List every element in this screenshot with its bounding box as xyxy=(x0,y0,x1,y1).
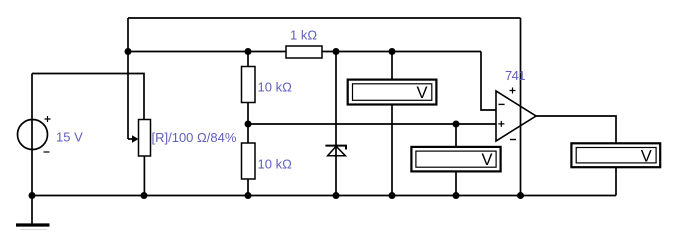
wire bus2 left segment xyxy=(128,51,286,53)
svg-text:[R]/100 Ω/84%: [R]/100 Ω/84% xyxy=(152,130,237,145)
wire R2 top lead xyxy=(247,52,249,67)
wire V2 top lead xyxy=(455,124,457,147)
wire top rail (V+ supply) xyxy=(128,17,521,19)
op-amp V- minus mark xyxy=(510,139,516,141)
junction node mid/V2 xyxy=(453,121,460,128)
voltmeter V2 outer box xyxy=(411,147,500,172)
wire V2 bottom lead xyxy=(455,172,457,196)
source V1 15V circle xyxy=(18,120,48,150)
wire zener branch vertical xyxy=(335,52,337,196)
svg-text:741: 741 xyxy=(505,68,525,83)
wire pot wiper arm xyxy=(128,138,134,140)
wire ground stem xyxy=(31,196,33,224)
junction node gnd/zener xyxy=(333,192,340,199)
wire R3 bottom lead xyxy=(247,179,249,196)
wire source vertical xyxy=(31,74,33,196)
junction node bus2/V1 xyxy=(389,48,396,55)
svg-text:V: V xyxy=(417,84,428,102)
zener diode D1 cathode bar xyxy=(325,146,346,150)
wire source top to pot top xyxy=(32,74,144,120)
op-amp non-inverting plus mark xyxy=(498,121,504,127)
svg-text:1 kΩ: 1 kΩ xyxy=(290,28,317,43)
ground symbol shadow xyxy=(20,229,47,231)
source minus sign xyxy=(44,151,50,153)
junction node bus2/zener xyxy=(333,48,340,55)
wire op-amp output to V3 top xyxy=(536,116,616,143)
resistor R1 1k body xyxy=(286,46,322,58)
wire bus2 right segment xyxy=(322,51,481,53)
svg-text:10 kΩ: 10 kΩ xyxy=(258,157,293,172)
voltmeter V2 inner box xyxy=(416,151,496,167)
pot wiper arrowhead xyxy=(132,135,139,142)
junction node gnd/V2 xyxy=(453,192,460,199)
junction node gnd/R3 xyxy=(245,192,252,199)
wire V1 top lead xyxy=(391,52,393,81)
svg-text:15 V: 15 V xyxy=(56,130,83,145)
wire non-inverting rail xyxy=(248,123,496,125)
voltmeter V1 outer box xyxy=(348,80,437,105)
potentiometer R body xyxy=(139,120,151,157)
zener diode D1 triangle xyxy=(328,146,346,156)
junction node gnd/op-amp V- xyxy=(517,192,524,199)
op-amp V+ plus mark xyxy=(510,88,516,94)
junction node gnd/source xyxy=(29,192,36,199)
svg-text:V: V xyxy=(482,151,493,169)
op-amp inverting minus mark xyxy=(499,103,505,105)
voltmeter V3 outer box xyxy=(571,143,660,167)
junction node mid/R chain xyxy=(245,121,252,128)
wire V3 bottom lead xyxy=(615,167,617,195)
ground symbol bar xyxy=(16,223,50,226)
voltmeter V3 inner box xyxy=(576,148,656,163)
resistor R3 10k body xyxy=(242,143,256,179)
wire bottom ground rail xyxy=(32,195,616,197)
wire inverting input drop xyxy=(481,52,496,111)
junction node gnd/pot xyxy=(141,192,148,199)
source plus sign xyxy=(45,116,51,122)
junction node bus2/R2 xyxy=(245,48,252,55)
wire V1 bottom lead xyxy=(391,105,393,196)
svg-text:V: V xyxy=(641,147,652,165)
resistor R2 10k body xyxy=(242,67,256,103)
wire R2-R3 middle leads xyxy=(247,103,249,144)
wire pot bottom lead xyxy=(143,156,145,196)
op-amp U1 741 triangle xyxy=(496,91,536,141)
wire op-amp supply vertical xyxy=(520,18,522,196)
svg-text:10 kΩ: 10 kΩ xyxy=(258,80,293,95)
junction node bus2/wiper xyxy=(125,48,132,55)
junction node gnd/V1 xyxy=(389,192,396,199)
voltmeter V1 inner box xyxy=(353,84,432,101)
wire wiper riser xyxy=(127,18,129,139)
